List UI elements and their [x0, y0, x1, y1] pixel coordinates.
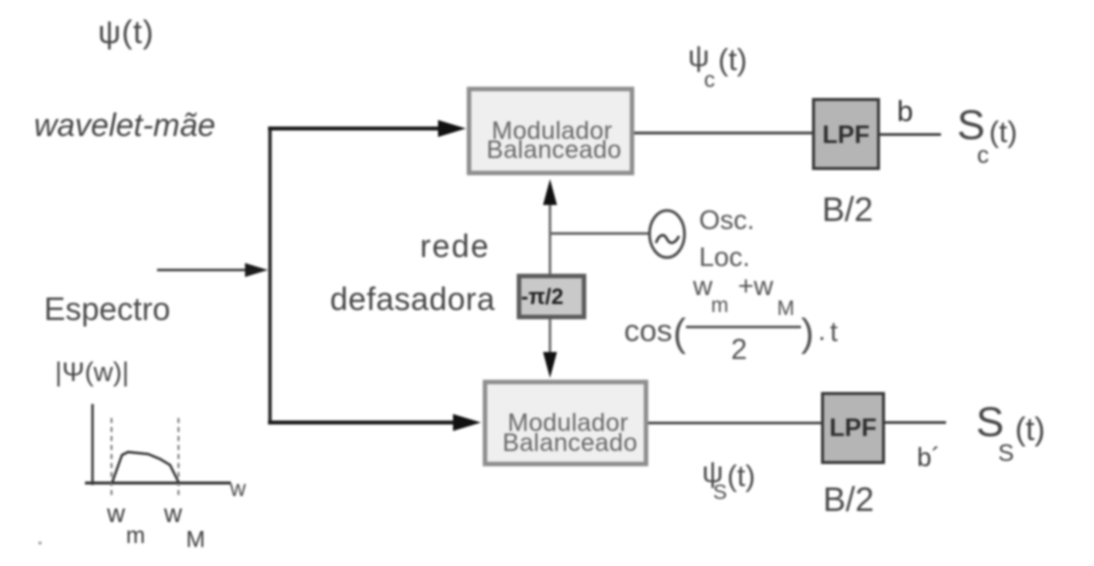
LPF box bottom — [823, 394, 884, 463]
wire top modulator to LPF — [634, 132, 812, 135]
LPF box top — [814, 100, 879, 169]
input wire — [157, 269, 250, 272]
spectrum y-axis — [91, 404, 94, 485]
spectrum trapezoid curve — [112, 452, 179, 483]
svg-text:LPF: LPF — [822, 121, 869, 149]
wire oscillator to phase line — [549, 232, 650, 235]
svg-text:): ) — [801, 312, 814, 355]
svg-text:w: w — [163, 500, 183, 528]
svg-text:Balanceado: Balanceado — [486, 136, 621, 164]
svg-text:S: S — [713, 481, 727, 504]
input arrowhead — [245, 263, 268, 277]
svg-text:b´: b´ — [917, 442, 940, 472]
wire bottom modulator to LPF — [648, 422, 821, 425]
svg-text:(t): (t) — [718, 42, 747, 77]
svg-text:w: w — [692, 271, 713, 301]
wire bottom LPF output — [885, 421, 946, 423]
oscillator circle — [650, 211, 685, 258]
svg-text:ψ(t): ψ(t) — [98, 14, 154, 50]
svg-text:cos: cos — [624, 313, 672, 348]
svg-text:B/2: B/2 — [823, 481, 874, 519]
modulator box top U1 — [469, 89, 632, 173]
spectrum x-axis — [85, 482, 231, 485]
svg-text:S: S — [957, 101, 985, 148]
svg-text:S: S — [998, 440, 1014, 467]
spectrum dashed line at wm — [111, 418, 113, 498]
svg-text:defasadora: defasadora — [330, 281, 495, 317]
svg-text:-π/2: -π/2 — [521, 284, 564, 309]
wire phase vertical — [549, 202, 552, 355]
svg-text:w: w — [106, 500, 126, 528]
bottom branch arrowhead — [453, 414, 481, 431]
svg-text:M: M — [186, 526, 205, 552]
svg-text:+w: +w — [738, 271, 774, 301]
svg-text:Balanceado: Balanceado — [502, 429, 637, 457]
wire bottom branch — [268, 421, 458, 425]
svg-text:M: M — [777, 297, 795, 320]
wire trunk vertical — [268, 127, 272, 424]
up arrowhead into top modulator — [543, 179, 557, 205]
top branch arrowhead — [438, 120, 466, 137]
svg-text:w: w — [229, 476, 246, 501]
svg-text:LPF: LPF — [829, 414, 876, 442]
svg-text:Osc.: Osc. — [699, 205, 755, 235]
svg-text:rede: rede — [420, 228, 490, 264]
svg-text:m: m — [126, 522, 145, 548]
svg-text:Loc.: Loc. — [699, 242, 750, 272]
svg-text:Espectro: Espectro — [44, 291, 170, 327]
svg-text:wavelet-mãe: wavelet-mãe — [34, 107, 215, 143]
spectrum dashed line at wM — [178, 418, 180, 498]
svg-text:|Ψ(w)|: |Ψ(w)| — [55, 357, 129, 387]
phase shifter box -pi/2 — [519, 276, 584, 317]
svg-text:S: S — [976, 398, 1004, 445]
svg-text:(t): (t) — [1015, 411, 1045, 447]
modulator box bottom U2 — [485, 382, 646, 464]
svg-text:b: b — [897, 96, 913, 128]
svg-text:.: . — [818, 315, 826, 346]
svg-text:c: c — [977, 142, 989, 169]
down arrowhead into bottom modulator — [543, 352, 557, 378]
svg-text:c: c — [704, 67, 715, 92]
svg-text:t: t — [830, 316, 838, 347]
svg-text:(: ( — [673, 312, 686, 355]
wire top branch — [268, 127, 443, 131]
svg-text:(t): (t) — [989, 116, 1017, 149]
svg-text:m: m — [711, 294, 729, 317]
wire top LPF output — [880, 133, 941, 136]
svg-text:(t): (t) — [727, 460, 755, 493]
stray dot artifact — [38, 541, 41, 544]
svg-text:2: 2 — [731, 334, 747, 366]
oscillator tilde — [656, 235, 679, 243]
svg-text:B/2: B/2 — [822, 191, 873, 229]
